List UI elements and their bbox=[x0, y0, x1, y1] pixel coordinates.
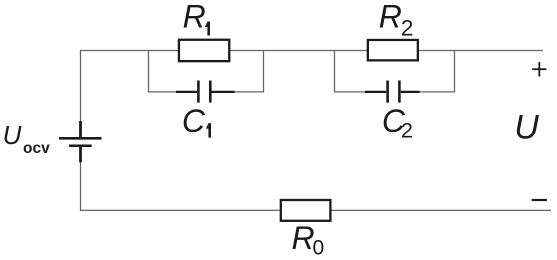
resistor R1 bbox=[179, 40, 229, 61]
svg-text:U: U bbox=[3, 120, 22, 150]
svg-text:2: 2 bbox=[401, 16, 414, 41]
svg-text:ocv: ocv bbox=[23, 140, 50, 157]
wire RC loop 2 right bbox=[418, 50, 455, 92]
label C2 bbox=[382, 103, 413, 143]
wire RC loop 1 left bbox=[149, 50, 179, 92]
capacitor C1 bbox=[176, 81, 235, 103]
svg-text:C: C bbox=[182, 103, 206, 139]
svg-text:0: 0 bbox=[313, 237, 325, 260]
battery U_ocv bbox=[59, 121, 102, 162]
label C1 bbox=[182, 103, 211, 139]
resistor R0 bbox=[281, 200, 331, 221]
plus terminal bbox=[532, 62, 546, 77]
svg-text:R: R bbox=[292, 220, 315, 256]
label R1 bbox=[183, 0, 210, 35]
wire left vertical lower bbox=[80, 161, 82, 211]
svg-text:U: U bbox=[514, 109, 539, 147]
wire bottom bus bbox=[80, 209, 551, 211]
label R0 bbox=[292, 220, 325, 260]
svg-text:R: R bbox=[183, 0, 206, 34]
wire top bus bbox=[80, 50, 543, 52]
capacitor C2 bbox=[365, 81, 420, 103]
label U_ocv bbox=[3, 120, 50, 157]
label R2 bbox=[379, 0, 414, 40]
wire left vertical upper bbox=[80, 50, 82, 123]
resistor R2 bbox=[368, 40, 418, 60]
minus terminal bbox=[532, 199, 547, 201]
svg-text:2: 2 bbox=[401, 119, 413, 143]
wire RC loop 2 left bbox=[335, 50, 368, 92]
wire RC loop 1 right bbox=[233, 50, 264, 92]
svg-text:R: R bbox=[379, 0, 402, 34]
